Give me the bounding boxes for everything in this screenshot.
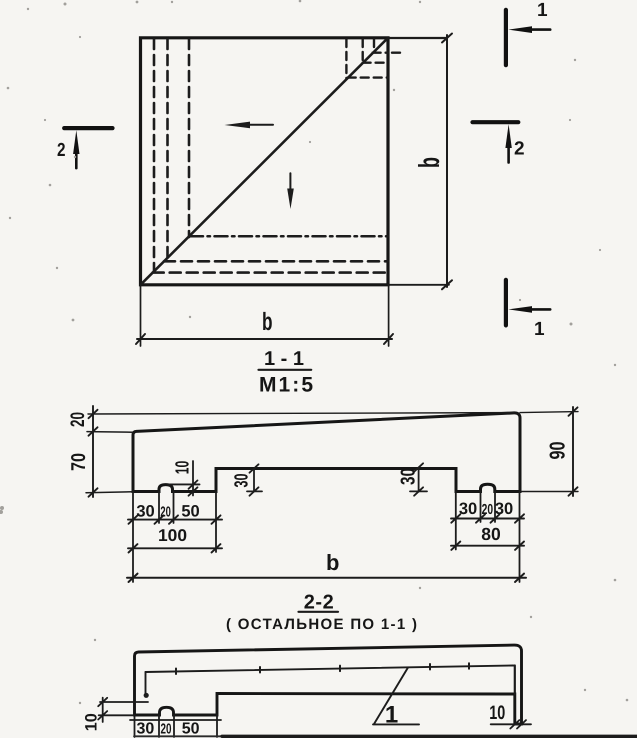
section marker 2 left (57, 128, 113, 168)
svg-text:2-2: 2-2 (304, 592, 334, 614)
extension line right bottom for 90 (520, 491, 578, 493)
svg-text:30: 30 (495, 500, 513, 518)
bottom scan edge line (134, 735, 222, 737)
svg-text:( ОСТАЛЬНОЕ ПО 1-1 ): ( ОСТАЛЬНОЕ ПО 1-1 ) (226, 616, 417, 633)
right foot extension verticals (456, 492, 520, 583)
plan top edge extension to right dim (388, 37, 447, 39)
title 2-2 underline (299, 611, 339, 613)
svg-text:50: 50 (181, 503, 199, 521)
dim 30 right step (410, 463, 427, 495)
arrow pointing down (span direction) (287, 173, 294, 209)
dim row 30|20|30 right (451, 514, 524, 522)
svg-text:30: 30 (232, 474, 253, 488)
right dimension line b (442, 34, 452, 290)
plan left edge extension down to bottom dim (140, 285, 142, 346)
svg-text:30: 30 (136, 503, 154, 521)
dim 30 left step (247, 464, 262, 495)
dashed rebar horizontals bottom group (153, 261, 388, 272)
svg-text:1: 1 (385, 702, 398, 729)
svg-text:20: 20 (161, 722, 172, 738)
svg-text:80: 80 (481, 524, 501, 544)
plan diagonal (141, 38, 389, 285)
plan bottom edge extension to right dim (388, 284, 449, 286)
svg-text:b: b (414, 157, 446, 168)
dim row b section 1-1 (127, 574, 526, 582)
left dim column line (89, 406, 98, 497)
bottom dimension line b (136, 334, 393, 344)
leg inner side up to rebar (514, 666, 516, 695)
rebar transverse ticks (176, 663, 469, 674)
svg-text:1 - 1: 1 - 1 (264, 348, 304, 370)
section marker 1 top-right (506, 0, 550, 65)
svg-text:2: 2 (57, 140, 66, 161)
dim 10 left foot (189, 461, 198, 496)
left foot extension verticals (133, 492, 216, 583)
dashed rebar verticals top-right group (346, 39, 374, 79)
svg-text:10: 10 (82, 713, 100, 731)
extension line top (20 level) (88, 413, 514, 414)
section marker 1 bottom-right (506, 280, 550, 340)
rebar 1 end blob (144, 693, 149, 698)
svg-text:b: b (326, 550, 339, 575)
section 1-1 outline (133, 413, 520, 492)
svg-text:1: 1 (537, 0, 548, 21)
svg-text:M1:5: M1:5 (259, 374, 313, 397)
dash-dot rebar horizontal bottom (190, 235, 388, 238)
leader line for rebar 1 (373, 668, 419, 725)
svg-text:70: 70 (68, 453, 90, 471)
svg-text:30: 30 (459, 500, 477, 518)
section 2-2 outline (135, 645, 522, 724)
svg-text:90: 90 (546, 441, 570, 459)
svg-text:20: 20 (160, 505, 171, 521)
rebar 1 main line (146, 666, 514, 673)
rebar 1 left hook (145, 672, 147, 694)
plan square outline (141, 38, 389, 285)
dashed rebar horizontals top-right group (348, 53, 401, 78)
dim row 30|20|50 (128, 515, 222, 523)
bottom dim box extensions (section 2-2) (130, 715, 221, 737)
svg-text:100: 100 (158, 526, 187, 545)
arrow pointing left (span direction) (225, 122, 274, 129)
title underline (259, 369, 312, 371)
svg-text:1: 1 (534, 319, 545, 340)
dim row 100 (128, 544, 222, 552)
dim 10 right (section 2-2) (491, 720, 531, 728)
extension line left top corner (87, 431, 133, 434)
dashed rebar verticals left group (154, 39, 189, 271)
right dim column 90 (569, 407, 578, 496)
svg-text:30: 30 (398, 468, 420, 485)
svg-text:10: 10 (173, 461, 194, 475)
rebar depth line (10 ref) (168, 483, 200, 485)
dim row 80 (451, 542, 524, 550)
svg-text:20: 20 (67, 412, 89, 427)
svg-text:10: 10 (489, 702, 505, 724)
section marker 2 mid-right (473, 122, 525, 162)
svg-text:2: 2 (514, 139, 525, 160)
extension line right top for 90 (520, 412, 578, 413)
svg-text:30: 30 (137, 721, 155, 738)
plan right edge extension down to bottom dim (388, 285, 390, 346)
svg-text:b: b (262, 308, 273, 336)
extension line left bottom (86, 491, 133, 494)
svg-text:20: 20 (482, 502, 494, 518)
svg-text:50: 50 (182, 721, 200, 738)
dim 10 left (section 2-2) (98, 698, 148, 722)
